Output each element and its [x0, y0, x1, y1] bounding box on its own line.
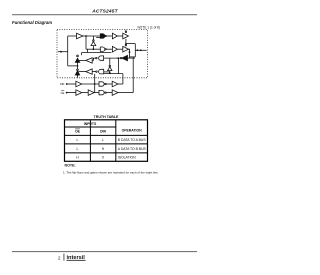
wire loop right edge: [134, 44, 136, 57]
nand G16: [99, 82, 104, 86]
dashed cell boundary box (1 of 8): [57, 30, 148, 78]
node enable junction: [94, 83, 96, 85]
wire T1 to T2 enable: [125, 39, 127, 45]
wire G11 out: [79, 59, 86, 61]
buffer G15: [76, 81, 82, 87]
wire TG2 stem down: [77, 75, 79, 78]
svg-text:1. The flip-flops and gates sh: 1. The flip-flops and gates shown are re…: [63, 170, 159, 174]
wire A input: [58, 51, 68, 53]
wire G15 out: [82, 83, 99, 85]
svg-text:OPERATION: OPERATION: [122, 128, 142, 132]
wire loop bottom: [130, 56, 136, 58]
wire DIR rail up: [122, 74, 124, 84]
wire G10 out jog: [92, 58, 95, 60]
node TG column: [77, 65, 79, 67]
nand G19: [99, 90, 104, 94]
wire G14 in: [92, 71, 95, 73]
wire row4 left: [79, 71, 86, 73]
node T2 out: [129, 51, 131, 53]
wire G17 out: [118, 83, 123, 85]
wire left rail: [67, 36, 69, 66]
buffer G3: [112, 33, 117, 39]
wire G18b out: [94, 92, 99, 94]
svg-text:L: L: [77, 138, 79, 142]
svg-text:OE: OE: [75, 130, 81, 134]
wire G13 stem: [109, 71, 111, 74]
table column line 2: [115, 120, 117, 162]
table outer border: [65, 120, 148, 162]
tri-state driver T2: [123, 46, 129, 52]
node B pad: [140, 49, 142, 51]
inverter G14 (left): [86, 69, 92, 74]
wire G12 in 1: [104, 71, 110, 73]
nand G12 (left): [99, 69, 104, 74]
wire rail to G1: [68, 35, 77, 37]
svg-text:L: L: [77, 147, 79, 151]
wire OE: [67, 92, 76, 94]
table column line 1: [89, 120, 91, 162]
wire G19 out: [106, 92, 112, 94]
transmission gate TG1: [77, 55, 79, 57]
inverter G9 (left): [122, 55, 128, 60]
wire loop top: [126, 43, 135, 45]
node G1 out: [85, 35, 87, 37]
wire TG column link: [77, 62, 79, 69]
svg-text:DIR: DIR: [60, 82, 65, 86]
inverter G11 (left): [86, 58, 92, 63]
svg-text:NOTE 1 (1 of 8): NOTE 1 (1 of 8): [138, 26, 161, 30]
svg-text:INPUTS: INPUTS: [84, 122, 97, 126]
header rule: [12, 13, 197, 16]
inverter G13 (vertical): [109, 58, 111, 65]
node B junction: [137, 49, 139, 51]
tri-state driver T1: [123, 33, 129, 39]
node A: [60, 51, 62, 53]
wire G5 out: [106, 48, 112, 50]
wire G18 out: [82, 92, 88, 94]
wire G16 out: [106, 83, 112, 85]
label OE overline: [61, 89, 64, 91]
table row line header: [65, 134, 148, 136]
buffer G18: [76, 90, 82, 96]
wire B pad: [135, 49, 146, 51]
node TG2 base: [77, 74, 79, 76]
wire OE feedback rail: [132, 57, 134, 93]
wire rail to TG column: [68, 65, 78, 67]
wire G20 out: [118, 92, 133, 94]
table row line 2: [65, 152, 148, 154]
buffer G20: [112, 90, 118, 96]
svg-text:ACTS245T: ACTS245T: [91, 9, 118, 15]
table row line 1: [65, 143, 148, 145]
wire G6 out: [117, 48, 122, 50]
node row3: [117, 57, 119, 59]
wire G8 stems: [92, 36, 94, 49]
svg-text:B DATA TO A BUS: B DATA TO A BUS: [118, 138, 147, 142]
table row line INPUTS: [65, 126, 116, 128]
svg-text:ISOLATION: ISOLATION: [118, 156, 136, 160]
svg-text:NOTE:: NOTE:: [65, 164, 76, 168]
wire row2 lower branch: [82, 49, 112, 55]
svg-text:DIR: DIR: [100, 130, 106, 134]
wire row3: [128, 57, 136, 59]
buffer G6: [112, 46, 117, 52]
nand G10 (left): [99, 56, 104, 60]
svg-text:OE: OE: [61, 91, 65, 95]
svg-text:TRUTH TABLE: TRUTH TABLE: [94, 115, 119, 119]
wire row3 to row4: [118, 58, 120, 74]
svg-text:H: H: [102, 147, 105, 151]
wire G2 out: [106, 35, 112, 37]
wire row2 feed: [86, 48, 101, 50]
wire G2 second input: [96, 36, 100, 38]
wire G1 out: [83, 35, 101, 37]
svg-text:L: L: [102, 138, 104, 142]
buffer G1: [77, 33, 84, 39]
wire enable rail: [94, 74, 96, 93]
wire T1 enable up: [125, 30, 127, 31]
nand G2: [100, 34, 104, 38]
wire G9 out: [104, 57, 121, 59]
wire G12 in 2: [104, 73, 123, 75]
buffer G17: [112, 81, 118, 87]
svg-text:X: X: [102, 156, 105, 160]
node DIR pad: [66, 83, 68, 85]
node G8 base: [93, 48, 95, 50]
wire T2 out down: [129, 49, 130, 58]
nand G5: [100, 47, 104, 51]
svg-text:A DATA TO B BUS: A DATA TO B BUS: [118, 147, 147, 151]
svg-text:Functional Diagram: Functional Diagram: [12, 20, 52, 25]
svg-text:H: H: [76, 156, 79, 160]
inverter G8 (vertical): [91, 41, 96, 45]
transmission gate TG2: [77, 69, 79, 71]
node enable: [125, 43, 127, 45]
wire feedback drop: [85, 36, 87, 49]
node G13 out: [109, 72, 111, 74]
wire DIR: [67, 83, 76, 85]
buffer G18b: [88, 90, 94, 96]
svg-text:2: 2: [58, 255, 61, 260]
footer divider: [63, 254, 66, 261]
node OE pad: [66, 92, 68, 94]
wire G3 out: [117, 35, 122, 37]
footer rule: [12, 250, 197, 253]
